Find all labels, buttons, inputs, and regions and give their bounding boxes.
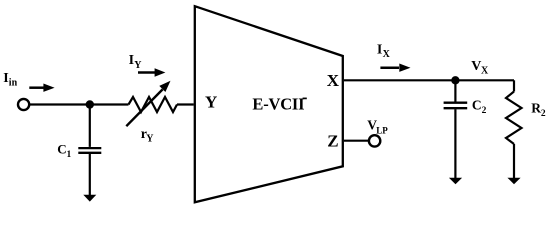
svg-text:Z: Z [327,132,338,151]
svg-text:X: X [383,49,391,60]
svg-text:X: X [481,66,489,77]
svg-text:Y: Y [205,93,217,112]
svg-text:X: X [327,71,340,90]
svg-text:C: C [472,98,482,113]
svg-text:1: 1 [67,150,72,160]
svg-text:2: 2 [482,106,487,116]
svg-text:2: 2 [541,109,546,119]
svg-text:E-VCII: E-VCII [252,94,304,113]
svg-text:C: C [57,142,66,157]
svg-text:I: I [377,43,382,58]
svg-text:R: R [531,101,541,116]
svg-text:Y: Y [134,60,142,71]
svg-text:V: V [471,59,481,74]
svg-text:in: in [9,78,18,89]
svg-text:I: I [129,53,134,68]
svg-text:LP: LP [376,125,388,135]
svg-text:Y: Y [146,134,154,145]
